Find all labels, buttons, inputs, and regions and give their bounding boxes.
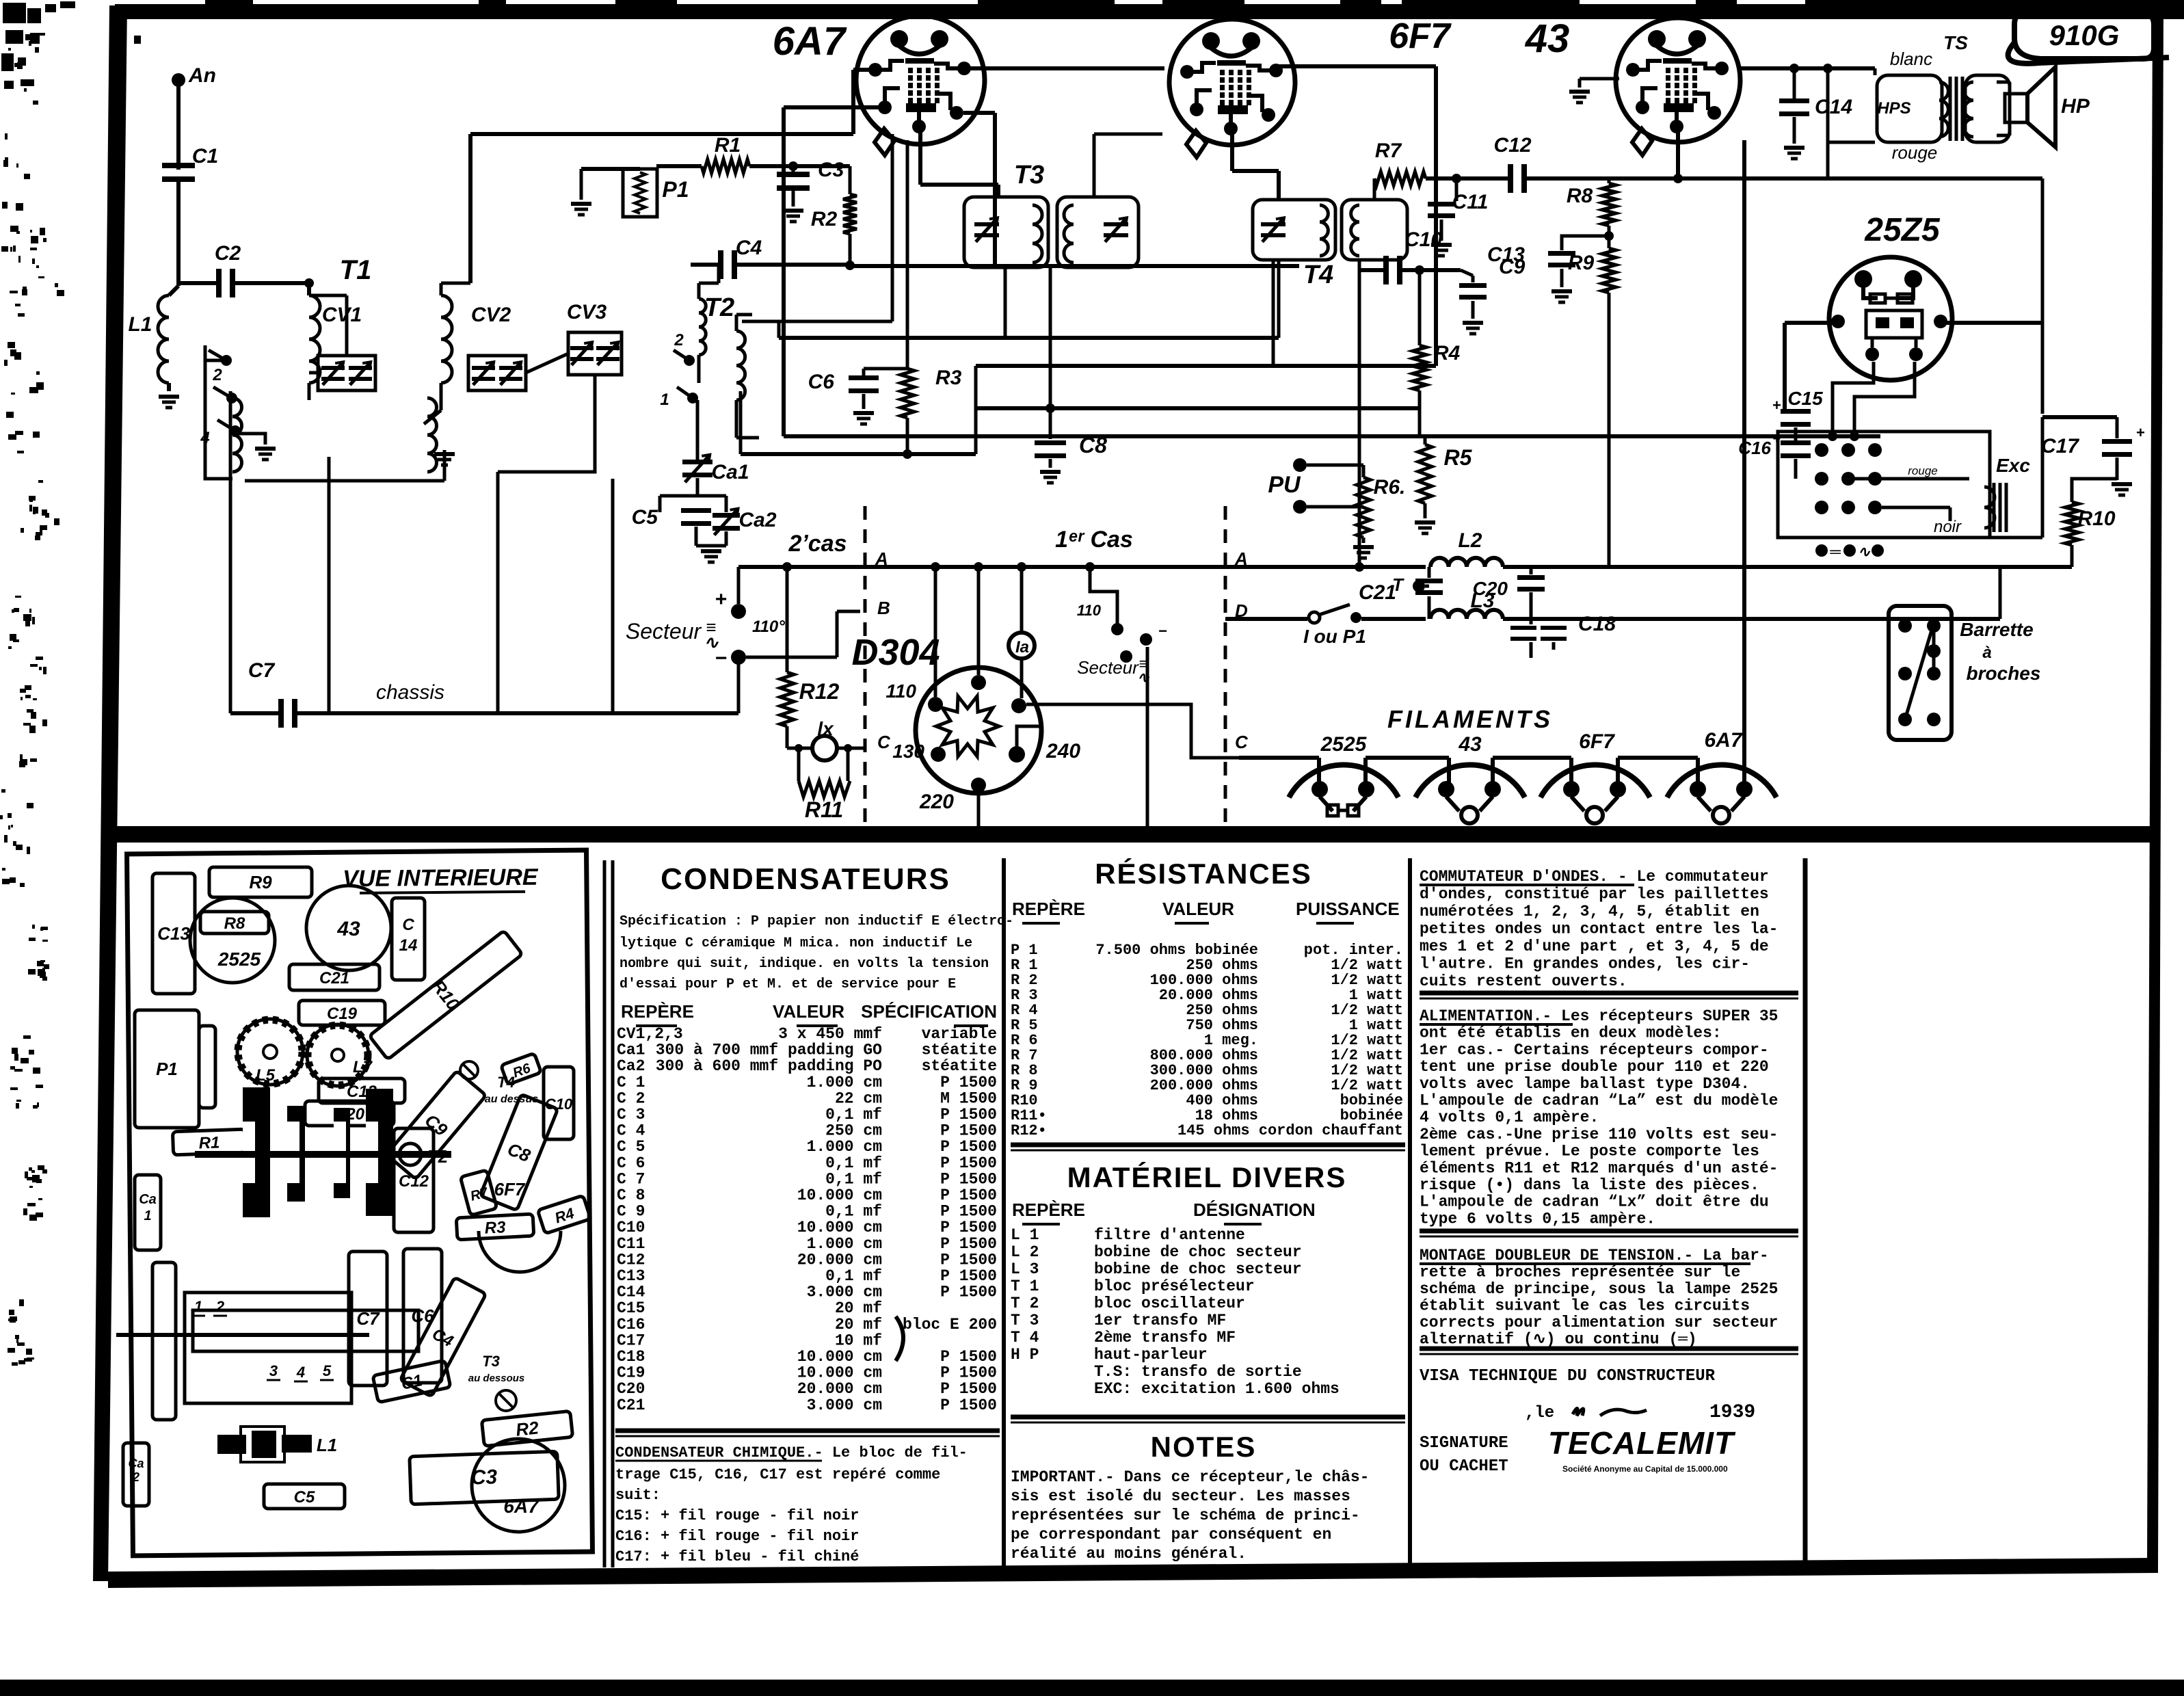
svg-text:suit:: suit:: [615, 1487, 661, 1504]
svg-text:130: 130: [892, 741, 924, 762]
svg-text:2: 2: [132, 1470, 139, 1484]
wire: [736, 263, 850, 267]
svg-text:3 x 450 mmf: 3 x 450 mmf: [778, 1025, 882, 1043]
svg-text:I ou P1: I ou P1: [1303, 626, 1366, 647]
trimmer Ca1: [682, 460, 713, 464]
svg-text:3: 3: [269, 1362, 278, 1379]
svg-text:C15: + fil rouge - fil noir: C15: + fil rouge - fil noir: [615, 1507, 859, 1524]
wire: [695, 527, 698, 546]
part C5: [264, 1484, 345, 1509]
wire: [1424, 503, 1427, 518]
wire: [742, 320, 892, 323]
svg-text:1ᵉʳ Cas: 1ᵉʳ Cas: [1055, 527, 1133, 553]
svg-text:filtre d'antenne: filtre d'antenne: [1094, 1226, 1245, 1244]
svg-text:4: 4: [200, 429, 209, 447]
svg-text:20.000 cm: 20.000 cm: [797, 1251, 882, 1269]
svg-text:P 1500: P 1500: [940, 1235, 997, 1253]
svg-text:C 1: C 1: [617, 1074, 645, 1091]
capacitor C12: [1508, 164, 1513, 193]
svg-text:C: C: [402, 916, 414, 934]
wire: [784, 105, 886, 109]
svg-text:2ème transfo MF: 2ème transfo MF: [1094, 1329, 1236, 1347]
part C7: [349, 1251, 387, 1386]
svg-text:110°: 110°: [752, 618, 785, 636]
wire: [696, 478, 700, 496]
svg-text:mes 1 et 2 d'une part , et 3,: mes 1 et 2 d'une part , et 3, 4, 5 de: [1420, 938, 1769, 955]
svg-text:VISA TECHNIQUE DU CONSTRUCTEUR: VISA TECHNIQUE DU CONSTRUCTEUR: [1420, 1367, 1716, 1386]
part C1: [373, 1360, 451, 1403]
part R3: [456, 1214, 534, 1240]
svg-text:trage C15, C16, C17 est repér: trage C15, C16, C17 est repéré comme: [615, 1466, 940, 1483]
resistor R6: [1357, 477, 1370, 538]
wire: [1943, 321, 2042, 325]
wire: [1527, 176, 1668, 181]
wire: [1491, 758, 1495, 784]
wire bus: [977, 406, 1420, 410]
svg-text:CV3: CV3: [567, 301, 607, 323]
svg-text:1: 1: [144, 1208, 151, 1223]
variable capacitor CV3: [568, 332, 622, 375]
svg-text:220: 220: [919, 791, 954, 813]
resistor R3: [901, 369, 914, 418]
resistor R5: [1424, 436, 1427, 445]
svg-text:20 mf: 20 mf: [835, 1316, 882, 1334]
svg-text:P1: P1: [662, 177, 689, 202]
svg-text:PUISSANCE: PUISSANCE: [1296, 899, 1400, 919]
svg-text:L2: L2: [1458, 529, 1482, 552]
svg-text:C 9: C 9: [617, 1203, 645, 1221]
wire: [1017, 726, 1039, 747]
svg-text:C10: C10: [617, 1219, 645, 1236]
node An (antenna): [172, 73, 185, 87]
svg-text:43: 43: [1458, 733, 1482, 756]
svg-text:bobine de choc secteur: bobine de choc secteur: [1094, 1243, 1302, 1261]
svg-text:C17: C17: [617, 1331, 645, 1349]
svg-text:P 1500: P 1500: [940, 1364, 997, 1382]
wire bus: [976, 364, 1436, 368]
svg-text:tent une prise double pour 11: tent une prise double pour 110 et 220: [1420, 1058, 1769, 1076]
trimmer Ca2: [713, 513, 740, 518]
wire: [1362, 538, 1366, 543]
svg-text:240: 240: [1046, 740, 1080, 763]
speaker HP: [2005, 94, 2027, 122]
svg-text:3.000 cm: 3.000 cm: [807, 1396, 882, 1414]
switch secteur 1er cas: [1111, 623, 1123, 635]
svg-text:T4: T4: [1303, 261, 1333, 289]
svg-text:P 1500: P 1500: [940, 1396, 997, 1414]
svg-text:22 cm: 22 cm: [835, 1089, 882, 1107]
wire C-filament bus: [1239, 756, 1319, 760]
wire: [2116, 417, 2119, 438]
svg-text:0,1 mf: 0,1 mf: [825, 1203, 882, 1221]
part R10: [369, 929, 524, 1061]
svg-text:ont été établis en deux modèle: ont été établis en deux modèles:: [1420, 1024, 1722, 1042]
svg-text:HPS: HPS: [1877, 99, 1910, 118]
wire: [1854, 362, 1915, 436]
node secteur + terminal: [731, 604, 746, 619]
svg-text:C14: C14: [1815, 96, 1852, 118]
wire: [176, 182, 181, 286]
ground: [1415, 520, 1435, 525]
svg-text:sis est isolé du secteur. Le: sis est isolé du secteur. Les masses: [1011, 1487, 1350, 1505]
wire grid bus: [850, 264, 1299, 268]
svg-text:6A7: 6A7: [773, 19, 847, 64]
svg-text:REPÈRE: REPÈRE: [1012, 899, 1085, 919]
capacitor C14: [1793, 68, 1796, 98]
reference 910G: [2014, 14, 2154, 59]
svg-text:nombre qui suit, indique. en v: nombre qui suit, indique. en volts la te…: [620, 956, 989, 972]
svg-text:2: 2: [674, 331, 684, 349]
wire B+ bus: [784, 434, 1880, 438]
svg-text:réalité au moins général.: réalité au moins général.: [1011, 1545, 1247, 1563]
svg-text:+: +: [715, 588, 727, 611]
ground: [1552, 289, 1572, 293]
inductor L3: [1430, 610, 1503, 619]
svg-text:C21: C21: [319, 969, 349, 988]
commutator block: [1778, 432, 1990, 538]
svg-text:CV1: CV1: [322, 304, 362, 326]
tube 25Z5 rectifier: [1829, 257, 1952, 380]
svg-text:R2: R2: [515, 1417, 540, 1440]
part C3: [410, 1451, 559, 1504]
wire: [1358, 260, 1361, 567]
resistor R7: [1374, 172, 1426, 185]
ground: [783, 209, 803, 213]
connector barrette: [1889, 606, 1952, 740]
svg-text:Ca2: Ca2: [738, 509, 776, 531]
svg-text:∿: ∿: [1137, 669, 1150, 686]
svg-text:D304: D304: [851, 632, 940, 673]
svg-text:T4: T4: [497, 1074, 515, 1091]
svg-text:T: T: [1392, 574, 1404, 595]
wire: [837, 747, 865, 750]
part R4: [537, 1195, 591, 1234]
capacitor C20: [1530, 567, 1533, 574]
capacitor C15 (electrolytic): [1781, 409, 1811, 414]
svg-text:rouge: rouge: [1892, 142, 1938, 163]
pin 110: [928, 697, 943, 712]
wire: [1676, 127, 1680, 178]
resistor R11: [797, 748, 801, 781]
capacitor C5: [681, 508, 711, 513]
svg-text:L1: L1: [128, 313, 152, 336]
svg-text:C5: C5: [632, 506, 659, 529]
ground: [1463, 321, 1483, 325]
wire: [470, 132, 853, 136]
capacitor C13: [1562, 236, 1607, 250]
tube 2525 location: [190, 898, 275, 983]
wire chassis: [297, 711, 738, 715]
svg-text:représentées sur le schéma de: représentées sur le schéma de princi-: [1011, 1507, 1360, 1524]
svg-text:bloc présélecteur: bloc présélecteur: [1094, 1277, 1255, 1295]
tube 43 location: [306, 886, 391, 970]
svg-text:C 6: C 6: [617, 1154, 645, 1172]
resistor R12: [786, 567, 789, 672]
svg-text:TS: TS: [1943, 32, 1968, 53]
svg-text:R1: R1: [198, 1133, 220, 1152]
wire: [526, 354, 568, 373]
svg-text:C9: C9: [1499, 256, 1526, 278]
svg-text:alternatif (∿) ou continu (═): alternatif (∿) ou continu (═): [1420, 1331, 1697, 1349]
wire: [1793, 117, 1796, 144]
part Ca2: [123, 1443, 149, 1506]
wire: [906, 140, 909, 369]
capacitor C4: [718, 250, 723, 279]
svg-text:110: 110: [1077, 602, 1102, 619]
wire anode bus: [1739, 66, 1875, 70]
switch contact 1: [221, 355, 232, 366]
svg-text:20.000 cm: 20.000 cm: [797, 1380, 882, 1398]
svg-text:Exc: Exc: [1996, 455, 2030, 476]
part R1: [172, 1129, 245, 1155]
ground: [1784, 146, 1805, 150]
svg-text:2525: 2525: [1320, 733, 1368, 756]
resistor R1: [702, 159, 749, 173]
svg-text:0,1 mf: 0,1 mf: [825, 1106, 882, 1124]
part C19: [299, 1001, 385, 1025]
svg-text:corrects pour alimentation sur: corrects pour alimentation sur secteur: [1420, 1314, 1779, 1331]
wire: [229, 391, 232, 713]
svg-text:ALIMENTATION.- Les récepteurs: ALIMENTATION.- Les récepteurs SUPER 35: [1420, 1007, 1779, 1025]
wire: [1742, 140, 1746, 784]
svg-text:blanc: blanc: [1890, 49, 1932, 69]
svg-text:C4: C4: [736, 237, 762, 259]
capacitor C17: [2102, 439, 2132, 444]
node T: [1413, 580, 1425, 592]
wire: [1363, 758, 1368, 784]
capacitor C16 (electrolytic): [1794, 427, 1798, 440]
svg-text:stéatite: stéatite: [922, 1057, 997, 1075]
wire: [498, 375, 595, 472]
wire: [2116, 458, 2119, 480]
wire: [656, 164, 702, 168]
bracket: [152, 1262, 176, 1420]
svg-text:C11: C11: [617, 1235, 645, 1253]
resistor R2: [849, 166, 852, 194]
svg-text:IMPORTANT.- Dans ce récepteur,: IMPORTANT.- Dans ce récepteur,le châs-: [1011, 1468, 1370, 1486]
svg-text:R8: R8: [1567, 185, 1593, 207]
svg-text:C: C: [877, 732, 891, 752]
wire: [1785, 321, 1838, 325]
ground: [415, 450, 444, 481]
svg-text:3.000 cm: 3.000 cm: [807, 1284, 882, 1301]
svg-text:1er transfo MF: 1er transfo MF: [1094, 1312, 1226, 1329]
svg-text:VALEUR: VALEUR: [773, 1001, 844, 1022]
svg-text:C19: C19: [617, 1364, 645, 1382]
part R7: [460, 1170, 497, 1215]
svg-text:C16: + fil rouge - fil noir: C16: + fil rouge - fil noir: [615, 1528, 859, 1545]
svg-text:risque (•) dans la liste de: risque (•) dans la liste des pièces.: [1420, 1176, 1759, 1194]
svg-text:au dessus: au dessus: [485, 1094, 538, 1105]
svg-text:T 2: T 2: [1011, 1295, 1039, 1312]
wire: [749, 164, 850, 168]
svg-text:L'ampoule de cadran “La” est d: L'ampoule de cadran “La” est du modèle: [1420, 1092, 1779, 1110]
svg-text:lx: lx: [817, 718, 834, 739]
capacitor C18: [1541, 626, 1567, 630]
svg-text:noir: noir: [1934, 518, 1962, 536]
svg-text:L 3: L 3: [1011, 1260, 1039, 1278]
wire: [934, 567, 937, 697]
svg-text:T3: T3: [482, 1353, 500, 1370]
svg-text:Spécification : P papier non i: Spécification : P papier non inductif E …: [620, 914, 1013, 929]
wire: [1503, 565, 2000, 569]
svg-text:P 1500: P 1500: [940, 1122, 997, 1140]
svg-text:10.000 cm: 10.000 cm: [797, 1187, 882, 1204]
ground: [1353, 545, 1374, 549]
capacitor C1: [162, 163, 195, 168]
svg-text:T 1: T 1: [1011, 1277, 1039, 1295]
svg-text:R8: R8: [224, 914, 245, 933]
ground: [701, 549, 721, 553]
svg-text:P 1500: P 1500: [940, 1170, 997, 1188]
pin 130: [931, 747, 946, 762]
wire: [746, 656, 837, 659]
ground: [853, 411, 874, 415]
svg-text:C18: C18: [1578, 613, 1616, 635]
svg-text:R2: R2: [811, 208, 838, 230]
svg-text:H P: H P: [1011, 1346, 1039, 1364]
svg-text:bobine de choc secteur: bobine de choc secteur: [1094, 1260, 1302, 1278]
svg-text:10 mf: 10 mf: [835, 1331, 882, 1349]
svg-text:2525: 2525: [217, 949, 261, 970]
wire: [1426, 176, 1508, 181]
svg-text:43: 43: [1525, 16, 1570, 61]
svg-text:à: à: [1982, 644, 1991, 662]
svg-text:T3: T3: [1014, 161, 1044, 189]
svg-text:R12: R12: [799, 679, 840, 704]
wire: [1833, 362, 1874, 436]
svg-text:Ca: Ca: [139, 1192, 157, 1207]
wire: [1307, 505, 1363, 509]
svg-text:43: 43: [336, 918, 360, 940]
svg-text:P 1500: P 1500: [940, 1284, 997, 1301]
wire: [1402, 268, 1461, 272]
wire: [167, 383, 171, 391]
panel VUE INTERIEURE: [127, 850, 593, 1556]
svg-text:stéatite: stéatite: [922, 1042, 997, 1059]
svg-text:25Z5: 25Z5: [1864, 212, 1941, 248]
capacitor C11: [1455, 178, 1459, 201]
wire: [245, 479, 415, 483]
wire: [1616, 758, 1620, 784]
svg-text:Ca2: Ca2: [617, 1057, 645, 1075]
svg-text:TECALEMIT: TECALEMIT: [1548, 1425, 1736, 1461]
wire: [440, 383, 443, 410]
svg-text:B: B: [877, 598, 890, 618]
node PU: [1293, 458, 1307, 472]
part R6: [501, 1053, 541, 1085]
wire A bus: [1225, 565, 1426, 569]
svg-text:+: +: [1772, 397, 1781, 414]
tuning gang T2: [243, 1087, 270, 1217]
svg-text:broches: broches: [1967, 663, 2041, 684]
svg-text:C18: C18: [617, 1348, 645, 1366]
wire: [865, 565, 1225, 569]
part C4: [400, 1277, 486, 1397]
wire: [1373, 178, 1376, 200]
wire: [1503, 617, 2000, 621]
wire: [739, 391, 743, 454]
svg-text:R5: R5: [1444, 445, 1473, 470]
svg-text:R3: R3: [935, 367, 962, 389]
svg-text:−: −: [1158, 622, 1167, 639]
svg-text:C: C: [1235, 732, 1249, 752]
wire: [792, 191, 795, 207]
wire: [1608, 226, 1611, 248]
dial assembly: [185, 1293, 351, 1403]
svg-text:Ia: Ia: [1015, 638, 1029, 657]
svg-text:P 1500: P 1500: [940, 1106, 997, 1124]
svg-text:C11: C11: [1452, 191, 1489, 213]
wire: [697, 355, 701, 383]
svg-text:R12•: R12•: [1011, 1122, 1047, 1139]
svg-text:P 1500: P 1500: [940, 1267, 997, 1285]
wire: [1530, 642, 1533, 658]
svg-text:C 3: C 3: [617, 1106, 645, 1124]
svg-text:6F7: 6F7: [1579, 730, 1615, 753]
svg-text:C10: C10: [545, 1096, 573, 1113]
svg-text:1939: 1939: [1709, 1402, 1755, 1423]
svg-text:schéma de principe, sous la la: schéma de principe, sous la lampe 2525: [1420, 1280, 1779, 1298]
svg-text:4 volts 0,1 ampère.: 4 volts 0,1 ampère.: [1420, 1109, 1599, 1126]
wire: [309, 371, 318, 375]
svg-text:CONDENSATEUR CHIMIQUE.- Le blo: CONDENSATEUR CHIMIQUE.- Le bloc de fil-: [615, 1444, 968, 1461]
svg-text:HP: HP: [2061, 95, 2090, 118]
svg-text:C 4: C 4: [617, 1122, 645, 1140]
part Ca1: [135, 1175, 161, 1250]
variable capacitor CV1: [318, 356, 375, 390]
svg-text:VALEUR: VALEUR: [1162, 899, 1234, 919]
wire: [440, 283, 443, 295]
svg-text:P 1500: P 1500: [940, 1219, 997, 1236]
svg-text:C13: C13: [157, 923, 190, 944]
wire: [737, 657, 741, 713]
variable capacitor CV2: [468, 356, 526, 390]
wire: [234, 281, 309, 285]
svg-text:variable: variable: [922, 1025, 997, 1043]
svg-text:6A7: 6A7: [1704, 729, 1742, 752]
svg-text:6F7: 6F7: [494, 1179, 526, 1200]
inductor: [427, 398, 437, 472]
wire: [176, 83, 181, 170]
capacitor C6: [862, 369, 866, 375]
wire: [906, 418, 909, 454]
svg-text:Ca: Ca: [128, 1457, 144, 1470]
capacitor C9: [1471, 276, 1475, 282]
ground: [1431, 243, 1452, 247]
column separator: [1408, 858, 1412, 1566]
svg-text:C20: C20: [1473, 578, 1508, 599]
pin upper right: [1011, 698, 1026, 713]
wire: [1874, 68, 1877, 75]
svg-text:d'ondes, constitué par les pa: d'ondes, constitué par les paillettes: [1420, 886, 1769, 903]
switch contact: [687, 393, 698, 403]
svg-text:type 6 volts 0,15 ampère.: type 6 volts 0,15 ampère.: [1420, 1210, 1655, 1228]
svg-text:0,1 mf: 0,1 mf: [825, 1170, 882, 1188]
svg-text:C12: C12: [617, 1251, 645, 1269]
svg-text:CV2: CV2: [471, 304, 511, 326]
svg-text:T1: T1: [340, 255, 372, 285]
wire: [1026, 704, 1239, 758]
wire: [205, 359, 226, 362]
svg-text:C12: C12: [399, 1172, 429, 1191]
svg-text:l'autre. En grandes ondes,: l'autre. En grandes ondes, les cir-: [1420, 955, 1750, 973]
svg-text:REPÈRE: REPÈRE: [1012, 1200, 1085, 1220]
tube 43: [1616, 18, 1740, 142]
wire: [1307, 464, 1363, 467]
svg-text:C21: C21: [1359, 581, 1396, 604]
wire: [862, 394, 866, 409]
